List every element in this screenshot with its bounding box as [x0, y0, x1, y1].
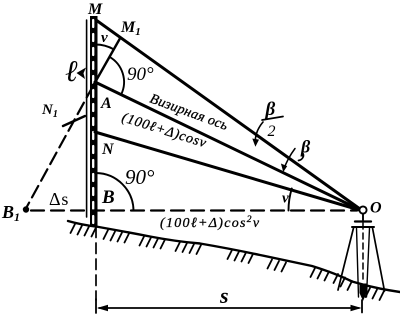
- theodolite tribrach plate: [352, 226, 374, 228]
- svg-text:ℓ: ℓ: [65, 55, 78, 88]
- staff left edge line: [86, 20, 88, 217]
- svg-text:O: O: [370, 200, 382, 217]
- plumb bob: [360, 284, 367, 302]
- svg-text:β: β: [265, 99, 276, 120]
- svg-text:2: 2: [268, 123, 276, 140]
- svg-text:(100ℓ+Δ)cos2ν: (100ℓ+Δ)cos2ν: [160, 215, 260, 231]
- svg-text:90°: 90°: [125, 165, 155, 189]
- wire: sight ray O-M (upper stadia line): [96, 20, 360, 209]
- arrowhead for l (staff intercept): [77, 68, 87, 80]
- staff body (rod at B): [90, 16, 98, 227]
- plumb line dashed under theodolite: [362, 223, 364, 283]
- svg-text:M: M: [87, 1, 103, 18]
- svg-text:90°: 90°: [127, 64, 154, 85]
- dashed extension line below staff: [95, 227, 97, 300]
- wire: sight axis O-A (визирная ось): [95, 82, 360, 210]
- beta/2 leader arrow curving down to gap between rays: [255, 122, 263, 143]
- node N1 tick mark: [63, 116, 85, 126]
- theodolite top plate: [355, 220, 371, 222]
- svg-text:s: s: [219, 283, 229, 308]
- ground terrain line: [68, 221, 400, 292]
- staff graduation white dashes: [92, 20, 94, 224]
- instrument point O circle: [359, 206, 366, 213]
- tripod leg right outer: [373, 228, 385, 291]
- wire: solid segment M1-A of tilted staff: [93, 38, 121, 87]
- beta angle arc across rays: [284, 149, 296, 171]
- angle arc 90deg at A (between tilted staff and sight axis): [109, 57, 124, 95]
- wire: dashed horizontal line B1-B-O: [31, 209, 357, 211]
- tripod leg left outer: [338, 228, 354, 290]
- dashed extension line below plumb bob: [361, 300, 363, 313]
- tripod leg left inner: [357, 228, 359, 297]
- beta letter tail swash: [299, 154, 304, 161]
- svg-text:B: B: [101, 187, 115, 208]
- tripod leg right inner: [367, 228, 370, 297]
- svg-text:A: A: [100, 95, 112, 112]
- svg-text:β: β: [300, 137, 311, 157]
- angle arc 90deg at B (between staff and horizontal): [96, 173, 134, 211]
- svg-text:Δs: Δs: [49, 189, 69, 209]
- ground hatching: [71, 224, 385, 300]
- wire: sight ray O-N (lower stadia line): [95, 132, 360, 210]
- wire: dashed tilted staff line A-N1-B1: [27, 86, 93, 207]
- beta/2 fraction bar: [262, 117, 283, 121]
- svg-text:ν: ν: [101, 30, 108, 46]
- theodolite stem below O: [362, 214, 364, 220]
- angle arc nu at A (between staff and tilted staff): [95, 44, 114, 49]
- node B1 dot: [23, 206, 29, 212]
- angle arc nu at O (between horizontal and sight axis): [289, 189, 292, 211]
- dimension line s: [99, 307, 359, 309]
- svg-text:N: N: [101, 141, 115, 158]
- svg-text:ν: ν: [282, 191, 289, 207]
